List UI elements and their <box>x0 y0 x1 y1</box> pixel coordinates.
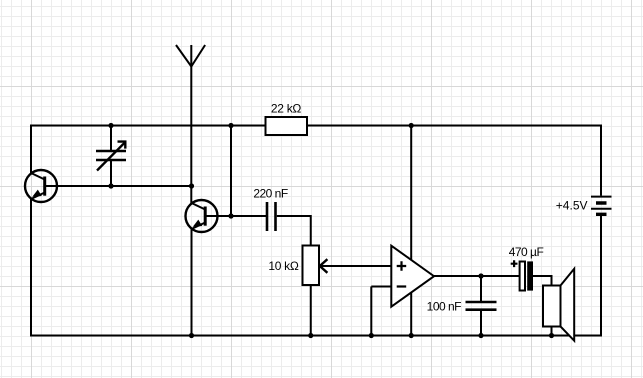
svg-text:100 nF: 100 nF <box>427 300 462 314</box>
svg-text:470 µF: 470 µF <box>509 245 544 259</box>
svg-text:10 kΩ: 10 kΩ <box>268 259 298 273</box>
svg-text:220 nF: 220 nF <box>253 187 288 201</box>
svg-text:+4.5V: +4.5V <box>556 199 588 213</box>
svg-text:22 kΩ: 22 kΩ <box>271 102 301 116</box>
